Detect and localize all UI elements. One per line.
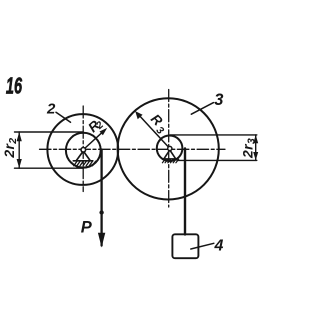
vertical centerline of wheel 3 xyxy=(168,90,170,208)
knot dot on rope P xyxy=(99,210,103,214)
fixed support of wheel 2: hatching xyxy=(74,161,96,166)
dimension 2r2: dimension line xyxy=(18,132,20,168)
wheel 2 inner circle (radius r2) xyxy=(66,133,101,168)
dimension 2r2: bottom arrowhead xyxy=(17,159,22,168)
dimension 2r3: dimension line xyxy=(255,135,257,161)
dimension 2r2: top arrowhead xyxy=(17,132,22,141)
dimension 2r3: bottom arrowhead xyxy=(253,152,258,160)
svg-text:2r3: 2r3 xyxy=(239,138,257,159)
svg-text:3: 3 xyxy=(214,91,223,109)
force P rope xyxy=(100,150,102,246)
fixed support of wheel 2: triangle xyxy=(73,151,93,161)
dimension 2r2: bottom extension line xyxy=(15,167,84,169)
pivot pin of wheel 3 xyxy=(168,146,172,150)
vertical centerline of wheel 2 xyxy=(82,106,84,192)
wheel 2 outer circle xyxy=(47,114,118,185)
fixed support of wheel 3: hatching xyxy=(162,159,178,163)
dimension 2r3: top extension line xyxy=(170,134,257,136)
leader line for label 3 xyxy=(191,103,213,115)
leader line for label 4 xyxy=(191,243,214,249)
svg-text:4: 4 xyxy=(214,238,224,255)
wheel 3 inner circle (radius r3) xyxy=(157,136,183,162)
svg-text:2r2: 2r2 xyxy=(1,138,19,159)
radius arrow R3 xyxy=(139,115,170,148)
svg-text:P: P xyxy=(81,219,93,237)
pivot pin of wheel 2 xyxy=(81,148,86,153)
dimension 2r2: top extension line xyxy=(15,131,84,133)
wheel 3 outer circle xyxy=(118,98,219,199)
leader line for label 2 xyxy=(56,112,71,122)
arrowhead of force P xyxy=(98,233,105,248)
radius arrow R2 xyxy=(84,131,104,149)
svg-text:2: 2 xyxy=(46,100,56,117)
dimension 2r3: top arrowhead xyxy=(253,135,258,143)
dimension 2r3: bottom extension line xyxy=(177,159,257,161)
svg-text:R3: R3 xyxy=(145,111,171,137)
rope to weight 4 xyxy=(184,149,186,235)
fixed support of wheel 3: triangle xyxy=(162,150,177,159)
svg-text:16: 16 xyxy=(6,74,22,99)
weight 4 box xyxy=(172,234,198,258)
horizontal centerline (common axis of wheels 2 and 3) xyxy=(40,148,226,150)
